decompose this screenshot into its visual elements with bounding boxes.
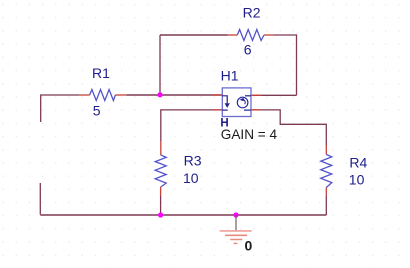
svg-text:R1: R1 [92, 65, 110, 81]
wire H1 out+ to R2 right [251, 94, 297, 96]
wire R3 bottom to bottom rail [160, 196, 162, 215]
wire H1 in- down to R3 [161, 110, 223, 141]
node B junction dot (R3 bottom) [158, 212, 163, 217]
svg-text:R3: R3 [184, 152, 202, 168]
svg-text:5: 5 [93, 103, 101, 119]
H1 circle pin stubs [244, 96, 251, 110]
op H1 CCVS box [222, 88, 251, 117]
svg-text:R4: R4 [349, 154, 367, 170]
wire left upper corner (R1 left lead down) [41, 95, 80, 122]
wire left lower corner [39, 183, 41, 215]
svg-text:GAIN = 4: GAIN = 4 [221, 127, 278, 142]
node A junction dot [157, 92, 162, 97]
H1 sense arrow [222, 96, 227, 110]
H1 source circle [237, 97, 248, 108]
wire H1 out- stepping to R4 [251, 110, 326, 145]
wire top rail left of R2 [160, 34, 228, 36]
resistor R3 [160, 141, 162, 196]
wire R1 right to H1 [126, 94, 222, 96]
wire bottom rail [40, 214, 326, 216]
ground [220, 215, 252, 243]
svg-text:10: 10 [183, 170, 199, 186]
resistor R2 [228, 34, 275, 36]
node GND junction dot [233, 212, 238, 217]
svg-text:10: 10 [349, 171, 365, 187]
svg-text:0: 0 [245, 237, 253, 253]
svg-text:R2: R2 [243, 4, 261, 20]
resistor R4 [325, 145, 327, 196]
wire top rail right of R2 [274, 35, 297, 95]
H1 pin leads [212, 95, 262, 110]
H1 circle inner arrow [243, 100, 245, 105]
svg-text:6: 6 [244, 41, 252, 57]
wire node A up to top rail [159, 35, 161, 95]
resistor R1 [79, 94, 126, 96]
wire R4 bottom to bottom rail [325, 196, 327, 215]
svg-text:H1: H1 [221, 68, 239, 84]
